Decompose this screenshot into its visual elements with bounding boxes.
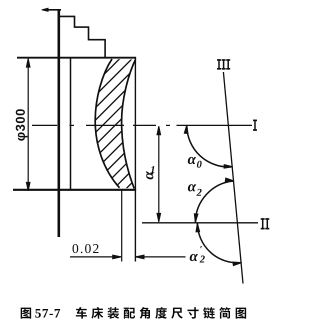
disc right face plane line + 0.02 extension xyxy=(134,57,136,262)
faceplate face section (lens) left curve xyxy=(95,59,119,188)
label II xyxy=(261,218,265,220)
dimension alpha1 vertical line xyxy=(158,127,160,222)
arc alpha2 between line III and line II xyxy=(195,181,233,223)
inner vertical line of flange xyxy=(70,58,72,190)
caption text xyxy=(76,307,87,319)
faceplate left edge xyxy=(57,9,60,237)
stepped jaw profile xyxy=(58,16,106,57)
line III slanted xyxy=(223,72,243,284)
extension line at lens max deviation xyxy=(121,191,123,262)
label alpha2 xyxy=(188,184,196,191)
label alpha0 xyxy=(188,157,196,164)
arc alpha0 between line I and line III xyxy=(187,125,232,166)
centerline + line I (dash-dot) xyxy=(32,124,252,126)
dimension 0.02 line right segment xyxy=(136,256,186,258)
label III xyxy=(217,59,221,61)
line II xyxy=(142,222,258,224)
caption: fig number 图 57-7 xyxy=(21,308,31,319)
label I xyxy=(253,120,257,122)
disc top edge + phi300 top extension line xyxy=(17,57,136,59)
faceplate face section (lens) right curve xyxy=(122,60,136,189)
label alpha2prime xyxy=(190,254,198,261)
wire: spindle stub line top-left xyxy=(44,9,62,11)
arc alpha2prime below line II xyxy=(197,223,241,263)
label phi300 xyxy=(16,109,28,140)
label alpha1 (rotated) xyxy=(146,171,153,179)
dimension phi300 line xyxy=(27,60,29,191)
label 0.02 xyxy=(73,244,79,253)
disc bottom edge + phi300 bottom extension line xyxy=(13,189,136,191)
dimension 0.02 line left segment xyxy=(70,256,121,258)
